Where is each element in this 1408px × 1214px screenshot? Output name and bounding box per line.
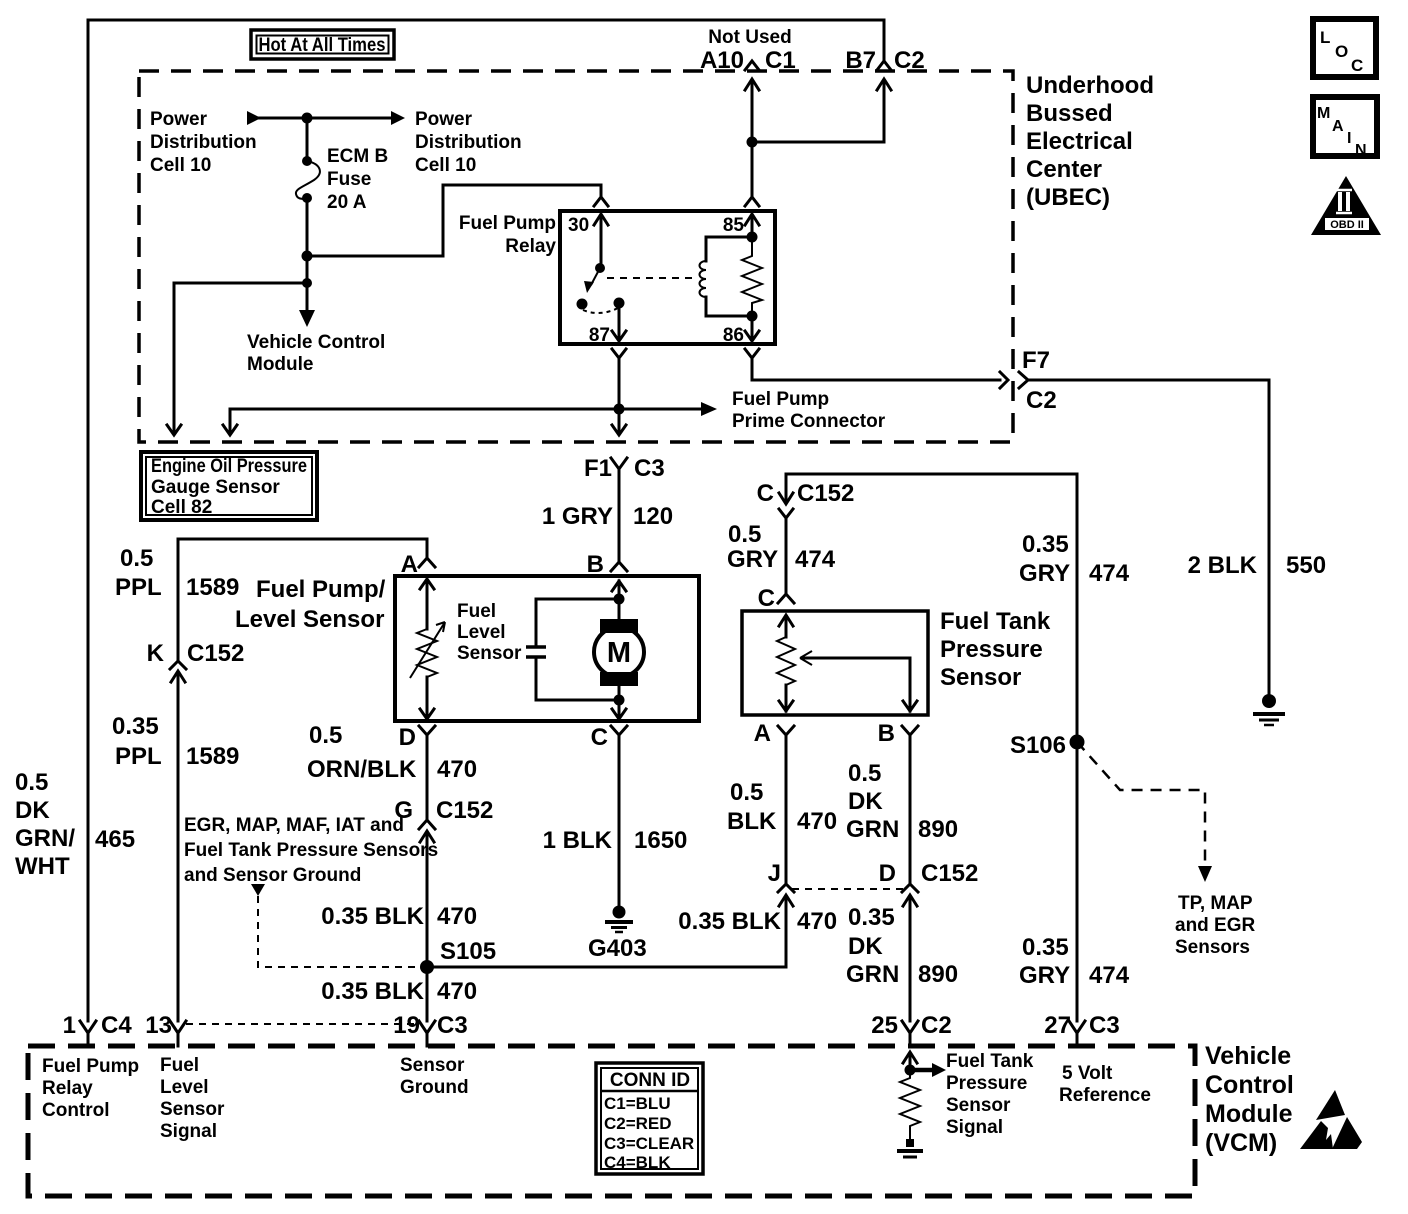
svg-text:474: 474 (1089, 560, 1130, 587)
svg-text:F7: F7 (1022, 347, 1050, 374)
wire D to G C152 (426, 735, 429, 820)
svg-text:1589: 1589 (186, 574, 239, 601)
VCM pin 25 (902, 1021, 918, 1046)
svg-text:Module: Module (1205, 1100, 1293, 1128)
svg-text:S106: S106 (1010, 732, 1066, 759)
dashed connector row pin13 to pin19 (186, 1023, 418, 1025)
svg-text:GRN/: GRN/ (15, 825, 75, 852)
wire A to J 0.5 BLK 470 (785, 735, 788, 883)
svg-text:Fuel Tank Pressure Sensors: Fuel Tank Pressure Sensors (184, 840, 438, 861)
svg-text:30: 30 (568, 215, 589, 236)
arrow up at A10 border crossing (745, 79, 759, 90)
chevron at F7 border (1019, 372, 1028, 388)
wire 0.5 PPL 1589 branch to pin A (178, 539, 427, 557)
svg-text:0.35: 0.35 (1022, 531, 1069, 558)
connector chevron D below box (419, 726, 435, 735)
wire 5V reference 0.35 GRY 474 down to pin 27 (1076, 474, 1079, 1021)
svg-text:Center: Center (1026, 156, 1102, 183)
svg-text:1: 1 (63, 1012, 76, 1039)
svg-text:Sensor: Sensor (160, 1099, 225, 1120)
svg-text:Control: Control (42, 1100, 110, 1121)
sensor wiper arrow (802, 658, 910, 700)
icon ESD symbol (1316, 1090, 1345, 1120)
connector D C152 chevron (902, 884, 918, 892)
svg-text:Fuel Tank: Fuel Tank (946, 1051, 1034, 1072)
connector chevron B7 C2 at UBEC border (877, 61, 891, 70)
arrow up inside VCM at pin 25 (903, 1052, 917, 1070)
svg-text:Sensor: Sensor (946, 1095, 1011, 1116)
ground G at 550 (1262, 694, 1276, 708)
arrow to fuel pump prime connector (619, 408, 701, 411)
wire C to G403 1 BLK 1650 (618, 735, 621, 906)
relay pin 86 arrow inside (745, 316, 759, 341)
relay pin 30 arrow inside (594, 214, 608, 268)
connector chevron relay pin 86 (745, 349, 759, 358)
svg-text:O: O (1335, 42, 1348, 61)
svg-text:Cell 10: Cell 10 (150, 155, 211, 176)
svg-text:0.35 BLK: 0.35 BLK (321, 978, 424, 1005)
connector J C152 arrow (779, 895, 793, 967)
wire node down to relay pin 85 (751, 142, 754, 196)
connector K C152 arrow (171, 671, 185, 1021)
svg-text:19: 19 (393, 1012, 420, 1039)
svg-text:A: A (754, 720, 771, 747)
arrow up inside sensor at C (779, 615, 793, 637)
svg-text:Fuel Pump: Fuel Pump (732, 389, 829, 410)
node below fuse (302, 251, 313, 262)
svg-text:K: K (147, 640, 165, 667)
wire pin 86 to F7 (752, 358, 1000, 380)
svg-text:Pressure: Pressure (940, 636, 1043, 663)
svg-text:GRN: GRN (846, 816, 899, 843)
capacitor branch (536, 599, 619, 700)
svg-text:Relay: Relay (42, 1078, 93, 1099)
arrow into UBEC at B7 (877, 79, 891, 142)
svg-text:(UBEC): (UBEC) (1026, 184, 1110, 211)
arrow fuel tank pressure sensor signal (910, 1068, 932, 1073)
svg-text:N: N (1355, 142, 1367, 159)
svg-text:B: B (587, 551, 604, 578)
connector chevron B below sensor (902, 726, 918, 735)
svg-text:C: C (1351, 56, 1363, 75)
wire 1 GRY 120 (618, 469, 621, 562)
svg-text:465: 465 (95, 826, 135, 853)
svg-text:C1=BLU: C1=BLU (604, 1094, 671, 1113)
svg-text:Ground: Ground (400, 1077, 469, 1098)
svg-text:Control: Control (1205, 1071, 1294, 1099)
svg-text:J: J (768, 860, 781, 887)
connector chevron relay pin 87 (612, 349, 626, 358)
svg-text:C152: C152 (797, 480, 854, 507)
svg-text:PPL: PPL (115, 574, 162, 601)
svg-text:Level Sensor: Level Sensor (235, 606, 384, 633)
svg-text:D: D (879, 860, 896, 887)
arrow down inside to D (420, 677, 434, 719)
svg-text:Power: Power (415, 109, 473, 130)
open arrow at F7 (1000, 372, 1008, 388)
svg-text:F1: F1 (584, 455, 612, 482)
svg-text:1589: 1589 (186, 743, 239, 770)
arrow down to Vehicle Control Module (306, 283, 309, 311)
relay switch contact (common) (577, 299, 588, 310)
svg-text:0.5: 0.5 (15, 769, 48, 796)
svg-text:Distribution: Distribution (415, 132, 522, 153)
svg-text:C152: C152 (187, 640, 244, 667)
svg-text:C: C (591, 724, 608, 751)
svg-text:Gauge Sensor: Gauge Sensor (151, 477, 280, 498)
svg-text:0.35 BLK: 0.35 BLK (678, 908, 781, 935)
node junction at relay coil feed (747, 137, 758, 148)
relay pin 85 arrow inside (745, 214, 759, 237)
svg-text:ECM B: ECM B (327, 146, 388, 167)
svg-text:Distribution: Distribution (150, 132, 257, 153)
icon LOC box (1313, 19, 1376, 77)
svg-text:C2=RED: C2=RED (604, 1114, 672, 1133)
svg-text:Fuel Pump: Fuel Pump (42, 1056, 139, 1077)
svg-text:C3: C3 (437, 1012, 468, 1039)
svg-text:DK: DK (15, 797, 50, 824)
node coil bottom (747, 311, 758, 322)
relay switch contact to pin 87 (614, 298, 625, 309)
svg-text:20 A: 20 A (327, 192, 367, 213)
connector K C152 chevron (170, 661, 186, 669)
svg-text:Module: Module (247, 354, 314, 375)
wire pin 87 down (618, 358, 621, 433)
arrow down inside sensor to A (779, 685, 793, 711)
connector J C152 chevron (778, 884, 794, 892)
svg-text:WHT: WHT (15, 853, 70, 880)
svg-text:Reference: Reference (1059, 1085, 1151, 1106)
svg-text:C: C (757, 480, 774, 507)
svg-text:C2: C2 (1026, 387, 1057, 414)
svg-text:(VCM): (VCM) (1205, 1129, 1277, 1157)
motor M (618, 599, 621, 700)
svg-text:1 BLK: 1 BLK (543, 827, 613, 854)
svg-text:85: 85 (723, 215, 745, 236)
fuel tank pressure sensor box (742, 611, 928, 715)
svg-text:Cell 10: Cell 10 (415, 155, 476, 176)
wire 1589 down left side (177, 539, 180, 660)
VCM pin 27 (1069, 1021, 1085, 1046)
svg-text:0.35 BLK: 0.35 BLK (321, 903, 424, 930)
svg-text:Sensor: Sensor (400, 1055, 465, 1076)
wire fuse down to node (306, 198, 309, 283)
svg-text:Vehicle Control: Vehicle Control (247, 332, 385, 353)
dashed connector line J to D (792, 888, 904, 890)
node motor bottom (614, 695, 625, 706)
svg-text:Sensor: Sensor (457, 643, 522, 664)
svg-text:GRY: GRY (1019, 560, 1070, 587)
connector G C152 chevron (419, 820, 435, 829)
svg-text:PPL: PPL (115, 743, 162, 770)
svg-text:Engine Oil Pressure: Engine Oil Pressure (151, 456, 307, 477)
svg-text:550: 550 (1286, 552, 1326, 579)
wire 5V ref top run 474 (786, 474, 1077, 503)
relay switch blade (591, 268, 600, 285)
svg-text:ORN/BLK: ORN/BLK (307, 756, 417, 783)
wire F7 to ground 2 BLK 550 (1028, 380, 1269, 695)
VCM pin 13 (170, 1021, 186, 1046)
svg-text:C4: C4 (101, 1012, 132, 1039)
svg-text:C4=BLK: C4=BLK (604, 1153, 671, 1172)
splice S105 (420, 960, 434, 974)
UBEC dashed border (139, 71, 1013, 442)
svg-text:C152: C152 (921, 860, 978, 887)
connector chevron A below sensor (778, 726, 794, 735)
node to engine oil pressure feed (302, 278, 312, 288)
svg-text:0.5: 0.5 (120, 545, 153, 572)
arrow down inside to C (612, 700, 626, 719)
svg-text:474: 474 (795, 546, 836, 573)
icon MAIN box (1313, 97, 1377, 156)
connector F1 C3 fork (611, 458, 627, 469)
connector chevron B into fuel pump (611, 562, 627, 571)
svg-text:C152: C152 (436, 797, 493, 824)
svg-text:890: 890 (918, 816, 958, 843)
wire left to engine oil pressure gauge sensor (174, 283, 307, 433)
fuse ECM B 20 A (302, 156, 312, 166)
svg-text:13: 13 (145, 1012, 172, 1039)
svg-text:Signal: Signal (160, 1121, 217, 1142)
svg-text:Signal: Signal (946, 1117, 1003, 1138)
svg-text:Hot At All Times: Hot At All Times (259, 35, 386, 56)
svg-text:470: 470 (437, 903, 477, 930)
connector C C152 arrow down (779, 493, 793, 504)
svg-text:0.5: 0.5 (730, 779, 763, 806)
dashed note lead to S105 (258, 896, 419, 967)
svg-text:C2: C2 (921, 1012, 952, 1039)
svg-text:M: M (607, 637, 631, 669)
svg-text:Vehicle: Vehicle (1205, 1042, 1291, 1070)
svg-text:474: 474 (1089, 962, 1130, 989)
wire prime connector line (230, 408, 619, 411)
connector C C152 chevron (779, 509, 793, 518)
connector G C152 arrow (420, 831, 434, 1021)
svg-text:Fuel: Fuel (457, 601, 496, 622)
CONN ID box (596, 1063, 703, 1174)
arrow down at border x230 (223, 425, 237, 435)
relay pin 87 arrow inside (612, 303, 626, 341)
arrow up inside at A (420, 579, 434, 629)
note arrow (251, 884, 265, 896)
svg-text:Relay: Relay (505, 236, 556, 257)
wire power bus (259, 117, 391, 120)
fuel level sensor variable resistor (417, 629, 437, 709)
svg-text:470: 470 (437, 978, 477, 1005)
wire prime line down into Cell 82 (229, 409, 232, 433)
svg-text:M: M (1317, 105, 1330, 122)
svg-text:C3=CLEAR: C3=CLEAR (604, 1134, 694, 1153)
svg-text:TP, MAP: TP, MAP (1178, 893, 1253, 914)
svg-text:5 Volt: 5 Volt (1062, 1063, 1113, 1084)
svg-text:I: I (1347, 130, 1351, 147)
svg-text:1 GRY: 1 GRY (542, 503, 613, 530)
svg-text:Fuel Pump: Fuel Pump (459, 213, 556, 234)
sensor resistor (777, 637, 795, 685)
VCM dashed border (28, 1046, 1195, 1196)
svg-text:GRN: GRN (846, 961, 899, 988)
wire bus down to fuse (306, 118, 309, 160)
svg-text:470: 470 (437, 756, 477, 783)
connector chevron relay pin 85 (745, 197, 759, 206)
svg-text:Level: Level (457, 622, 506, 643)
svg-text:G403: G403 (588, 935, 647, 962)
node inside VCM (905, 1065, 916, 1076)
wire B to D 0.5 DK GRN 890 (909, 735, 912, 883)
svg-text:Not Used: Not Used (708, 27, 791, 48)
node motor top (614, 594, 625, 605)
svg-text:470: 470 (797, 808, 837, 835)
arrow up inside at B (612, 581, 626, 599)
arrow to Power Distribution right (391, 111, 405, 125)
svg-text:120: 120 (633, 503, 673, 530)
svg-text:Sensors: Sensors (1175, 937, 1250, 958)
dashed arc between contacts (583, 308, 618, 313)
svg-text:L: L (1320, 28, 1330, 47)
svg-text:890: 890 (918, 961, 958, 988)
VCM pin 1 (80, 1021, 96, 1046)
svg-text:and Sensor Ground: and Sensor Ground (184, 865, 361, 886)
dashed actuator link to coil (607, 277, 694, 279)
svg-text:DK: DK (848, 788, 883, 815)
svg-text:OBD II: OBD II (1330, 219, 1364, 231)
arrow down at border x619 (to F1) (612, 425, 626, 435)
connector chevron C into sensor (778, 594, 794, 603)
svg-text:Pressure: Pressure (946, 1073, 1027, 1094)
svg-text:D: D (399, 724, 416, 751)
relay coil (700, 261, 707, 297)
svg-text:Fuel Pump/: Fuel Pump/ (256, 576, 386, 603)
svg-text:GRY: GRY (727, 546, 778, 573)
power feed arrow from Power Distribution (247, 111, 261, 125)
svg-text:BLK: BLK (727, 808, 777, 835)
svg-text:0.5: 0.5 (309, 722, 342, 749)
svg-text:Level: Level (160, 1077, 209, 1098)
wire node up to A10 (Not Used) (751, 81, 754, 142)
svg-text:Electrical: Electrical (1026, 128, 1133, 155)
ground G403 (613, 906, 626, 919)
svg-text:DK: DK (848, 933, 883, 960)
svg-text:C: C (758, 585, 775, 612)
svg-text:Fuel Tank: Fuel Tank (940, 608, 1051, 635)
hot at all times box (251, 30, 394, 59)
svg-text:Fuel: Fuel (160, 1055, 199, 1076)
arrow down into Cell 82 box (167, 425, 181, 435)
svg-text:Sensor: Sensor (940, 664, 1021, 691)
node prime connector (614, 404, 625, 415)
svg-text:0.5: 0.5 (728, 521, 761, 548)
wire 0.5 GRY 474 (785, 518, 788, 593)
svg-text:CONN ID: CONN ID (610, 1070, 690, 1091)
svg-text:Bussed: Bussed (1026, 100, 1113, 127)
svg-text:Fuse: Fuse (327, 169, 371, 190)
engine oil pressure gauge sensor box (141, 452, 317, 520)
connector chevron A into fuel pump (419, 558, 435, 567)
relay: fuel pump relay box (560, 211, 775, 344)
svg-text:Underhood: Underhood (1026, 72, 1154, 99)
svg-text:Cell 82: Cell 82 (151, 497, 212, 518)
svg-text:0.35: 0.35 (1022, 934, 1069, 961)
svg-text:1650: 1650 (634, 827, 687, 854)
svg-text:0.5: 0.5 (848, 760, 881, 787)
fuel pump / level sensor box (395, 576, 699, 721)
connector chevron C below box (611, 726, 627, 735)
connector D C152 arrow (903, 895, 917, 1021)
svg-text:EGR, MAP, MAF, IAT and: EGR, MAP, MAF, IAT and (184, 815, 404, 836)
icon OBD II triangle (1311, 176, 1381, 235)
svg-text:2 BLK: 2 BLK (1188, 552, 1258, 579)
svg-text:25: 25 (871, 1012, 898, 1039)
svg-text:C3: C3 (1089, 1012, 1120, 1039)
node coil top (747, 232, 758, 243)
svg-text:GRY: GRY (1019, 962, 1070, 989)
svg-text:27: 27 (1044, 1012, 1071, 1039)
wire: VCM pin 1 fuel pump relay control up left edge and across top to UBEC B7 (88, 20, 884, 1021)
connector chevron relay pin 30 (594, 197, 608, 206)
relay coil resistor (742, 237, 762, 316)
VCM internal resistor (900, 1070, 920, 1141)
svg-text:87: 87 (589, 325, 610, 346)
svg-text:B: B (878, 720, 895, 747)
svg-text:Prime Connector: Prime Connector (732, 411, 886, 432)
svg-text:A: A (1332, 118, 1344, 135)
VCM pin 19 (419, 1021, 435, 1046)
svg-text:S105: S105 (440, 938, 496, 965)
wire B7 to node (752, 141, 884, 144)
svg-text:470: 470 (797, 908, 837, 935)
svg-text:Power: Power (150, 109, 208, 130)
svg-text:A: A (401, 551, 418, 578)
svg-text:86: 86 (723, 325, 744, 346)
VCM internal ground (906, 1139, 914, 1147)
variable resistor arrow (410, 622, 445, 678)
relay switch pivot (595, 263, 605, 273)
wire S105 to J (427, 966, 786, 969)
node on power bus (302, 113, 313, 124)
splice S106 (1070, 735, 1085, 750)
dashed lead S106 to TP MAP EGR sensors (1077, 742, 1205, 866)
svg-text:0.35: 0.35 (848, 904, 895, 931)
svg-text:and EGR: and EGR (1175, 915, 1256, 936)
wire fused feed to relay pin 30 (307, 185, 601, 256)
connector chevron A10 C1 (745, 61, 759, 70)
arrow down inside sensor to B (903, 700, 917, 711)
svg-text:C3: C3 (634, 455, 665, 482)
svg-text:0.35: 0.35 (112, 713, 159, 740)
